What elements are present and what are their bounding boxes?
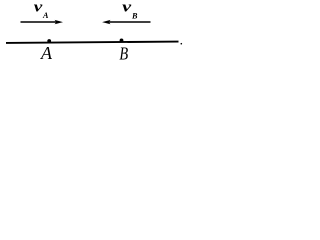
svg-text:B: B [131, 11, 138, 20]
period dot [181, 43, 183, 45]
svg-text:A: A [40, 43, 53, 63]
svg-text:v: v [122, 0, 132, 16]
point B dot [120, 39, 124, 43]
svg-text:B: B [119, 44, 128, 64]
vector arrow v_A (points right) [21, 21, 58, 23]
point A dot [47, 39, 51, 43]
svg-text:v: v [34, 0, 43, 16]
vector arrow v_B (points left) [109, 21, 151, 23]
svg-text:A: A [42, 11, 49, 20]
main line [6, 42, 179, 43]
